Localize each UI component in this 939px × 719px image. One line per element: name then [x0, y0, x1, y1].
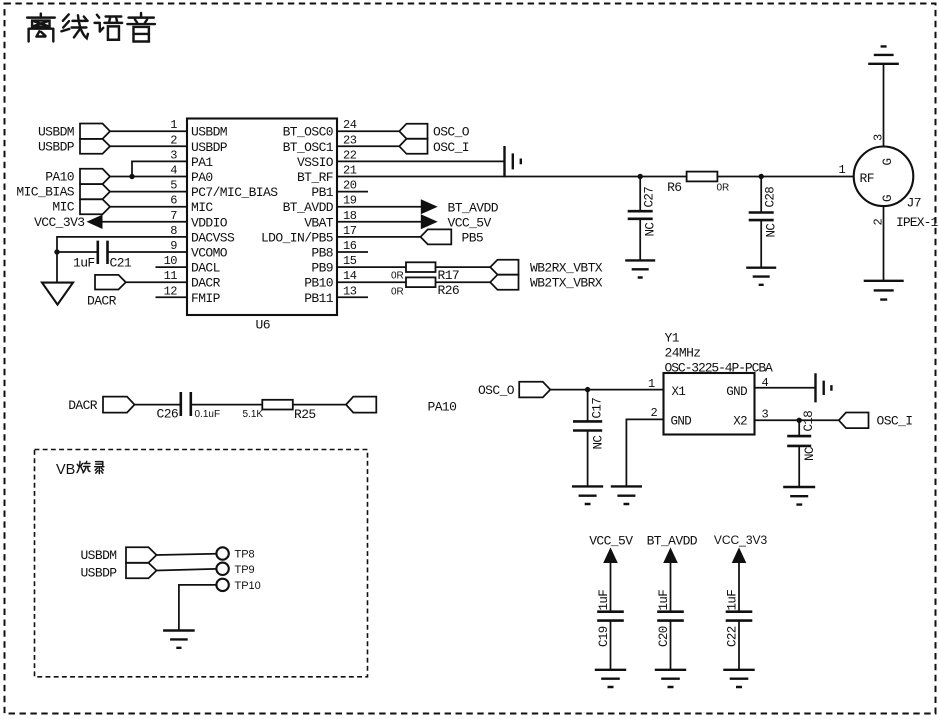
svg-text:PB8: PB8: [311, 246, 333, 261]
svg-text:24: 24: [343, 118, 357, 132]
ground (flipped up) at antenna top: [868, 46, 899, 63]
svg-text:OSC_O: OSC_O: [433, 124, 470, 139]
junction PA0/PA1/PA10: [129, 174, 134, 179]
junction BT_RF / C27: [638, 174, 643, 179]
svg-text:PB9: PB9: [311, 261, 333, 276]
port (unnamed, left-pointing): [346, 397, 376, 413]
svg-text:1uF: 1uF: [657, 590, 671, 611]
pin 13 PB11 stub: [337, 296, 368, 298]
pin 16 PB8 stub: [337, 251, 368, 253]
svg-text:1: 1: [648, 377, 655, 391]
svg-text:15: 15: [343, 254, 357, 268]
ground for TP10: [163, 631, 195, 648]
svg-text:0R: 0R: [391, 271, 404, 282]
ground for C20: [655, 670, 686, 687]
svg-text:12: 12: [164, 284, 178, 298]
svg-text:VDDIO: VDDIO: [191, 215, 228, 230]
svg-text:18: 18: [343, 209, 357, 223]
wire pin 14 PB10: [337, 281, 491, 283]
svg-text:G: G: [881, 159, 895, 166]
wire USBDM to TP8: [157, 554, 217, 555]
svg-text:U6: U6: [256, 318, 270, 333]
test point TP10: [216, 579, 228, 591]
wire J7 pin 3 up to ground: [883, 64, 885, 147]
title 离线语音 (hand-drawn CJK strokes): [27, 13, 155, 41]
svg-text:R17: R17: [438, 268, 460, 283]
svg-text:8: 8: [170, 224, 177, 238]
svg-text:R26: R26: [438, 283, 460, 298]
capacitor C21 plates: [98, 241, 108, 264]
wire Y1 pin 4 to sideways ground: [755, 387, 816, 389]
pin 10 DACL stub: [156, 266, 188, 268]
wire J7 pin 2 down to ground: [883, 206, 885, 281]
svg-text:C22: C22: [726, 626, 740, 647]
wire pin 9 VCOMO to C21: [57, 251, 98, 253]
svg-text:WB2TX_VBRX: WB2TX_VBRX: [530, 275, 603, 290]
svg-text:NC: NC: [644, 223, 658, 237]
svg-text:MIC: MIC: [52, 200, 74, 215]
svg-text:PC7/MIC_BIAS: PC7/MIC_BIAS: [191, 185, 278, 200]
test point TP9: [216, 563, 228, 575]
svg-text:PA10: PA10: [428, 399, 457, 414]
svg-text:USBDP: USBDP: [38, 139, 75, 154]
capacitor C28: [760, 177, 762, 213]
wire pin 24 to OSC_O: [337, 130, 400, 132]
pin 20 PB1 stub: [337, 191, 368, 193]
junction DACVSS/C21: [54, 249, 59, 254]
port OSC_I: [399, 139, 427, 154]
junction OSC_O / C17: [585, 387, 590, 392]
ground for C18: [783, 487, 815, 505]
ground for C17: [572, 486, 603, 504]
svg-text:X2: X2: [733, 414, 747, 428]
svg-text:2: 2: [651, 406, 658, 420]
wire Y1 pin 3 X2 to OSC_I: [755, 419, 840, 421]
capacitor C19 plates: [597, 612, 624, 621]
svg-text:11: 11: [164, 269, 178, 283]
svg-text:VCC_5V: VCC_5V: [589, 534, 633, 549]
wire DACVSS pin 8: [57, 237, 187, 283]
svg-text:5: 5: [170, 179, 177, 193]
wire PA1 pin 3 jog down to PA0: [132, 161, 187, 176]
port DACR (mid row): [103, 397, 135, 413]
port WB2TX_VBRX: [490, 275, 518, 290]
svg-text:10: 10: [164, 254, 178, 268]
svg-text:BT_AVDD: BT_AVDD: [647, 534, 698, 549]
U6 left pin numbers 1-12: [164, 118, 178, 298]
svg-text:USBDP: USBDP: [80, 565, 117, 580]
svg-text:G: G: [881, 195, 895, 202]
capacitor C22 plates: [726, 612, 753, 621]
svg-text:C17: C17: [591, 398, 605, 419]
svg-text:X1: X1: [672, 385, 686, 399]
svg-text:MIC: MIC: [191, 200, 213, 215]
svg-text:BT_OSC1: BT_OSC1: [283, 140, 334, 155]
svg-text:C18: C18: [802, 411, 816, 432]
capacitor C26: [181, 392, 191, 416]
test point TP8: [216, 547, 228, 559]
svg-text:0R: 0R: [391, 287, 404, 298]
svg-text:7: 7: [170, 209, 177, 223]
svg-text:PB10: PB10: [304, 276, 333, 291]
ground (open triangle, analog gnd): [42, 283, 73, 305]
svg-text:6: 6: [170, 194, 177, 208]
svg-text:DACL: DACL: [191, 261, 220, 276]
svg-text:1: 1: [839, 163, 846, 177]
svg-text:TP8: TP8: [235, 549, 255, 561]
ground (sideways) for Y1 pin 4: [816, 373, 832, 402]
svg-text:OSC_I: OSC_I: [433, 140, 469, 155]
svg-text:NC: NC: [803, 447, 817, 461]
junction X2 / C18: [797, 418, 802, 423]
pin 12 FMIP stub: [156, 296, 188, 298]
wire USBDP to TP9: [157, 569, 217, 571]
svg-text:0.1uF: 0.1uF: [195, 409, 221, 420]
wire pin 22 VSSIO: [337, 160, 505, 162]
ground for C28: [746, 268, 776, 285]
svg-text:VB: VB: [56, 462, 75, 478]
ground for C27: [625, 260, 655, 277]
svg-text:RF: RF: [860, 171, 874, 186]
svg-text:DACR: DACR: [87, 294, 117, 309]
power port BT_AVDD (right arrow): [421, 199, 438, 214]
svg-text:FMIP: FMIP: [191, 291, 221, 306]
svg-text:PB11: PB11: [304, 291, 334, 306]
svg-text:PB1: PB1: [311, 185, 333, 200]
svg-text:PB5: PB5: [462, 231, 484, 246]
wire MIC_BIAS to pin 5: [110, 191, 187, 193]
port PB5: [421, 229, 452, 244]
resistor R6: [687, 172, 718, 182]
svg-text:1: 1: [170, 118, 177, 132]
VB burn-in dashed box: [35, 450, 368, 677]
ground for C19: [595, 670, 626, 687]
svg-text:OSC_I: OSC_I: [877, 413, 913, 428]
ground for C22: [723, 670, 754, 687]
port OSC_O: [399, 124, 427, 139]
svg-text:NC: NC: [765, 224, 779, 238]
svg-text:USBDM: USBDM: [191, 125, 227, 140]
U6 left pin labels: [191, 125, 278, 306]
svg-text:USBDP: USBDP: [191, 140, 228, 155]
U6 right pin numbers 24-13: [343, 118, 357, 298]
svg-text:1uF: 1uF: [73, 256, 95, 271]
svg-text:2: 2: [170, 133, 177, 147]
svg-text:GND: GND: [726, 385, 747, 399]
svg-text:USBDM: USBDM: [80, 548, 116, 563]
svg-text:C27: C27: [643, 187, 657, 208]
resistor R25: [262, 400, 293, 410]
capacitor C27: [639, 177, 641, 212]
svg-text:DACR: DACR: [68, 398, 98, 413]
svg-text:USBDM: USBDM: [38, 124, 74, 139]
svg-text:WB2RX_VBTX: WB2RX_VBTX: [530, 260, 603, 275]
svg-text:23: 23: [343, 133, 357, 147]
port DACR: [95, 275, 126, 290]
svg-text:9: 9: [170, 239, 177, 253]
port OSC_I (osc section): [839, 413, 869, 429]
svg-text:VCC_3V3: VCC_3V3: [714, 533, 768, 547]
svg-text:TP10: TP10: [235, 580, 261, 592]
svg-text:5.1K: 5.1K: [243, 409, 264, 420]
power port VCC_5V (right arrow): [421, 214, 438, 229]
svg-text:20: 20: [343, 179, 357, 193]
capacitor C17: [587, 390, 589, 422]
svg-text:1uF: 1uF: [726, 590, 740, 611]
port WB2RX_VBTX: [490, 260, 518, 275]
svg-text:C28: C28: [764, 187, 778, 208]
antenna connector J7 circle: [854, 147, 914, 207]
wire VCC_3V3 to pin 7: [102, 221, 187, 223]
wire OSC_O to X1: [550, 389, 663, 391]
wire DACR to pin 11: [126, 281, 187, 283]
resistor R17: [406, 262, 436, 272]
svg-text:NC: NC: [592, 436, 606, 450]
wire pin 15 PB9: [337, 266, 491, 268]
ground (sideways) on VSSIO: [505, 146, 521, 177]
U6 right pin labels: [261, 125, 334, 306]
svg-text:C19: C19: [597, 626, 611, 647]
ground below antenna: [864, 281, 904, 300]
wire DACR to C26: [135, 404, 181, 406]
junction BT_RF / C28: [759, 174, 764, 179]
svg-text:VCC_5V: VCC_5V: [448, 215, 492, 230]
wire USBDM to pin 1: [110, 130, 187, 132]
capacitor C18: [798, 420, 800, 436]
svg-text:C21: C21: [110, 256, 132, 271]
resistor R26: [406, 277, 436, 287]
svg-text:1uF: 1uF: [597, 590, 611, 611]
svg-text:PA1: PA1: [191, 155, 213, 170]
svg-text:VCC_3V3: VCC_3V3: [34, 215, 84, 230]
svg-text:BT_AVDD: BT_AVDD: [448, 200, 499, 215]
svg-text:PA0: PA0: [191, 170, 213, 185]
svg-text:C26: C26: [157, 407, 179, 422]
wire pin 17: [337, 236, 421, 238]
svg-text:24MHz: 24MHz: [665, 346, 701, 361]
svg-text:19: 19: [343, 194, 357, 208]
svg-text:21: 21: [343, 164, 357, 178]
svg-text:VBAT: VBAT: [304, 215, 334, 230]
svg-text:DACVSS: DACVSS: [191, 230, 235, 245]
wire pin 21 BT_RF net: [337, 176, 854, 178]
svg-text:J7: J7: [907, 196, 921, 211]
svg-text:LDO_IN/PB5: LDO_IN/PB5: [261, 230, 333, 245]
svg-text:DACR: DACR: [191, 276, 221, 291]
ground for Y1 pin 2: [611, 486, 642, 504]
svg-text:0R: 0R: [717, 183, 730, 194]
MCU U6 body: [187, 119, 337, 316]
wire PA10 to pin 4: [110, 176, 187, 178]
svg-text:TP9: TP9: [235, 564, 255, 576]
wire MIC to pin 6: [110, 206, 187, 208]
svg-text:C20: C20: [657, 626, 671, 647]
wire C26 to R25: [191, 404, 262, 406]
svg-text:PA10: PA10: [45, 170, 74, 185]
svg-text:4: 4: [170, 164, 177, 178]
svg-text:GND: GND: [671, 414, 692, 428]
svg-text:17: 17: [343, 224, 357, 238]
svg-text:R25: R25: [294, 407, 316, 422]
svg-text:VSSIO: VSSIO: [297, 155, 334, 170]
wire C21 to pin 9: [107, 251, 187, 253]
svg-text:13: 13: [343, 284, 357, 298]
svg-text:14: 14: [343, 269, 357, 283]
wire Y1 pin 2 GND: [626, 419, 663, 486]
svg-text:IPEX-1: IPEX-1: [896, 215, 939, 230]
wire TP10 to ground: [179, 585, 217, 630]
svg-text:BT_AVDD: BT_AVDD: [283, 200, 334, 215]
wire R25 to port: [293, 404, 347, 406]
wire pin 23 to OSC_I: [337, 145, 400, 147]
svg-text:MIC_BIAS: MIC_BIAS: [16, 185, 74, 200]
wire pin 18: [337, 221, 421, 223]
svg-text:R6: R6: [667, 180, 681, 195]
svg-text:Y1: Y1: [665, 331, 680, 346]
svg-text:22: 22: [343, 148, 357, 162]
capacitor C20 plates: [657, 612, 684, 621]
svg-text:OSC_O: OSC_O: [478, 383, 515, 398]
svg-text:BT_OSC0: BT_OSC0: [283, 125, 333, 140]
svg-text:16: 16: [343, 239, 357, 253]
wire USBDP to pin 2: [110, 145, 187, 147]
svg-text:BT_RF: BT_RF: [297, 170, 333, 185]
wire pin 19: [337, 206, 421, 208]
svg-text:VCOMO: VCOMO: [191, 246, 228, 261]
svg-text:3: 3: [170, 148, 177, 162]
